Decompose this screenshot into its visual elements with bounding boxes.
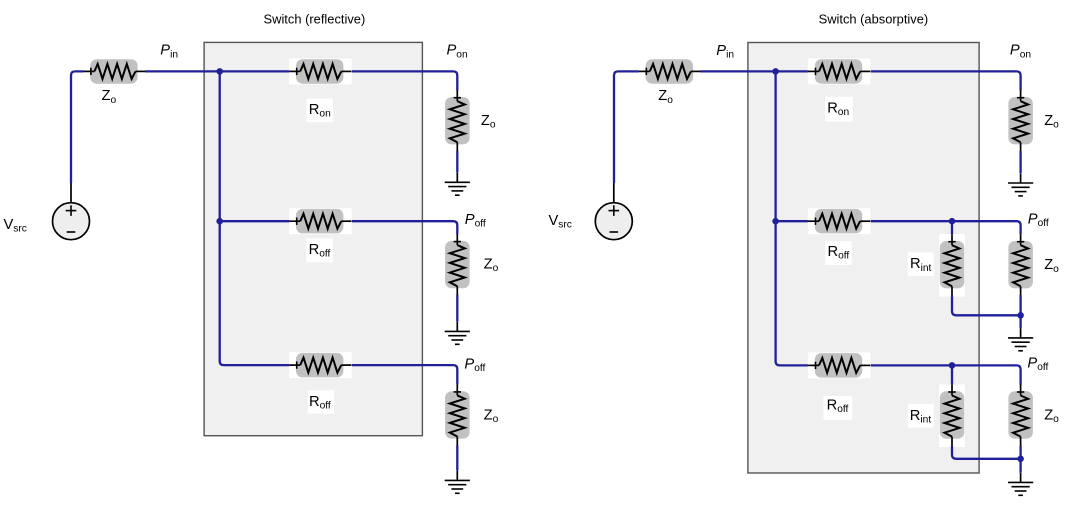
enclosure box: Switch (reflective) — [204, 42, 422, 435]
resistor Z0 load row2 right — [1008, 234, 1033, 296]
ground row2 right — [1008, 328, 1033, 351]
wire Z0 bottom to ground row2 left — [456, 295, 458, 322]
label Rint row2 right — [910, 256, 932, 274]
ground row2 left — [445, 322, 470, 345]
resistor Z0 series left — [83, 59, 145, 83]
wire junction to Rint row2 right — [951, 221, 953, 234]
label Z0 load row2 right — [1044, 257, 1059, 275]
title label: Switch (absorptive) — [819, 11, 929, 26]
resistor Rint row3 right — [939, 384, 965, 447]
wire Roff to port Poff row2 left — [352, 221, 457, 234]
trunk wire to lower rows right — [776, 71, 809, 365]
wire Roff to port Poff row3 left — [352, 365, 457, 384]
wire Z0 bottom to shared node row2 right — [1019, 295, 1021, 315]
wire Z0 bottom to ground row1 left — [456, 151, 458, 172]
svg-text:Zo: Zo — [658, 88, 673, 106]
resistor Ron left — [289, 58, 352, 84]
label Ron left white patch — [306, 99, 333, 123]
resistor Z0 series right — [639, 59, 701, 83]
resistor Z0 load row3 right — [1008, 384, 1033, 446]
label Roff row3 right — [827, 398, 849, 416]
resistor Roff row3 left — [289, 352, 352, 378]
wire trunk to Roff row2 right — [776, 220, 809, 222]
label Z0 series right — [658, 88, 673, 106]
svg-text:Switch (absorptive): Switch (absorptive) — [819, 11, 929, 26]
wire Roff to port Poff row3 right — [871, 365, 1021, 384]
label Pon right — [1010, 43, 1031, 61]
svg-text:Pin: Pin — [716, 43, 734, 61]
label Vsrc right — [549, 213, 572, 231]
junction Rint tap row3 right — [949, 362, 956, 369]
wire Ron to port Pon right — [871, 71, 1021, 90]
label Z0 load row1 right — [1044, 113, 1059, 131]
trunk wire to lower rows left — [220, 71, 290, 365]
resistor Z0 load row1 right — [1008, 90, 1033, 152]
wire trunk to Roff row2 left — [220, 220, 290, 222]
junction shared node row3 right — [1017, 456, 1024, 463]
enclosure box: Switch (absorptive) — [748, 43, 979, 474]
label Roff row3 right white patch — [824, 396, 853, 420]
label Poff row3 left — [464, 356, 485, 374]
label Z0 series left — [102, 88, 117, 106]
label Rint row2 right white patch — [908, 252, 934, 276]
svg-text:Vsrc: Vsrc — [549, 213, 572, 231]
wire Roff to port Poff row2 right — [871, 221, 1021, 234]
svg-text:Pon: Pon — [1010, 43, 1031, 61]
label Z0 load row1 left — [481, 113, 496, 131]
label Roff row2 left — [309, 242, 331, 260]
resistor Roff row2 right — [808, 208, 871, 234]
label Pon left — [447, 43, 468, 61]
wire shared node to ground row3 right — [1019, 459, 1021, 473]
resistor Z0 load row3 left — [445, 384, 470, 446]
label Z0 load row3 left — [484, 407, 499, 425]
svg-text:Pon: Pon — [447, 43, 468, 61]
svg-text:Poff: Poff — [1027, 355, 1048, 373]
resistor Roff row2 left — [289, 208, 352, 234]
svg-text:Zo: Zo — [484, 257, 499, 275]
node Pin label right — [716, 43, 734, 61]
svg-text:Zo: Zo — [484, 407, 499, 425]
resistor Z0 load row1 left — [445, 90, 470, 152]
wire Rint bottom to shared node row3 right — [952, 446, 1021, 459]
junction node Pin right — [772, 68, 779, 75]
wire Z0 to node Pin left — [145, 70, 289, 72]
ground row3 right — [1008, 473, 1033, 496]
wire Z0 bottom to ground row1 right — [1019, 151, 1021, 173]
label Roff row2 left white patch — [306, 239, 333, 263]
label Roff row3 left white patch — [308, 390, 335, 413]
label Poff row3 right — [1027, 355, 1048, 373]
label Ron right white patch — [825, 97, 853, 122]
label Poff row2 right — [1028, 212, 1049, 230]
resistor Z0 load row2 left — [445, 234, 470, 296]
resistor Ron right — [808, 58, 871, 84]
junction shared node row2 right — [1017, 312, 1024, 319]
svg-text:Zo: Zo — [481, 113, 496, 131]
resistor Roff row3 right — [808, 352, 871, 378]
title label: Switch (reflective) — [264, 11, 366, 26]
label Rint row3 right white patch — [908, 404, 934, 428]
label Rint row3 right — [910, 408, 932, 426]
node Pin label left — [160, 43, 178, 61]
wire Z0 to node Pin right — [701, 70, 809, 72]
svg-text:Zo: Zo — [1044, 257, 1059, 275]
svg-text:Zo: Zo — [1044, 408, 1059, 426]
voltage source VSRC right — [595, 203, 632, 240]
label Z0 load row2 left — [484, 257, 499, 275]
resistor Rint row2 right — [939, 234, 965, 297]
svg-text:Poff: Poff — [1028, 212, 1049, 230]
svg-text:Poff: Poff — [464, 356, 485, 374]
voltage source VSRC left — [53, 203, 90, 240]
svg-text:Zo: Zo — [1044, 113, 1059, 131]
wire Z0 bottom to shared node row3 right — [1019, 446, 1021, 459]
wire shared node to ground row2 right — [1019, 315, 1021, 328]
svg-text:Switch (reflective): Switch (reflective) — [264, 11, 366, 26]
svg-text:Pin: Pin — [160, 43, 178, 61]
wire Ron to port Pon left — [352, 71, 457, 90]
lead from Vsrc positive terminal right — [613, 183, 615, 203]
junction row2 left — [216, 218, 223, 225]
label Z0 load row3 right — [1044, 408, 1059, 426]
wire Z0 bottom to ground row3 left — [456, 445, 458, 470]
label Vsrc left — [4, 217, 27, 235]
junction Rint tap row2 right — [949, 218, 956, 225]
svg-text:Poff: Poff — [465, 212, 486, 230]
lead from Vsrc positive terminal — [70, 183, 72, 203]
label Roff row2 right — [828, 244, 850, 262]
ground row1 left — [445, 173, 470, 196]
ground row3 left — [445, 471, 470, 494]
label Roff row3 left — [309, 394, 331, 412]
wire junction to Rint row3 right — [951, 365, 953, 384]
label Poff row2 left — [465, 212, 486, 230]
wire Rint bottom to shared node row2 right — [952, 295, 1021, 315]
wire Vsrc to series Z0 left — [71, 71, 83, 183]
svg-text:Vsrc: Vsrc — [4, 217, 27, 235]
junction node Pin left — [216, 68, 223, 75]
label Ron left — [309, 102, 331, 120]
label Roff row2 right white patch — [825, 241, 852, 265]
label Ron right — [827, 101, 849, 119]
svg-text:Zo: Zo — [102, 88, 117, 106]
ground row1 right — [1008, 173, 1033, 196]
wire Vsrc to series Z0 right — [614, 71, 639, 183]
junction row2 right — [772, 218, 779, 225]
